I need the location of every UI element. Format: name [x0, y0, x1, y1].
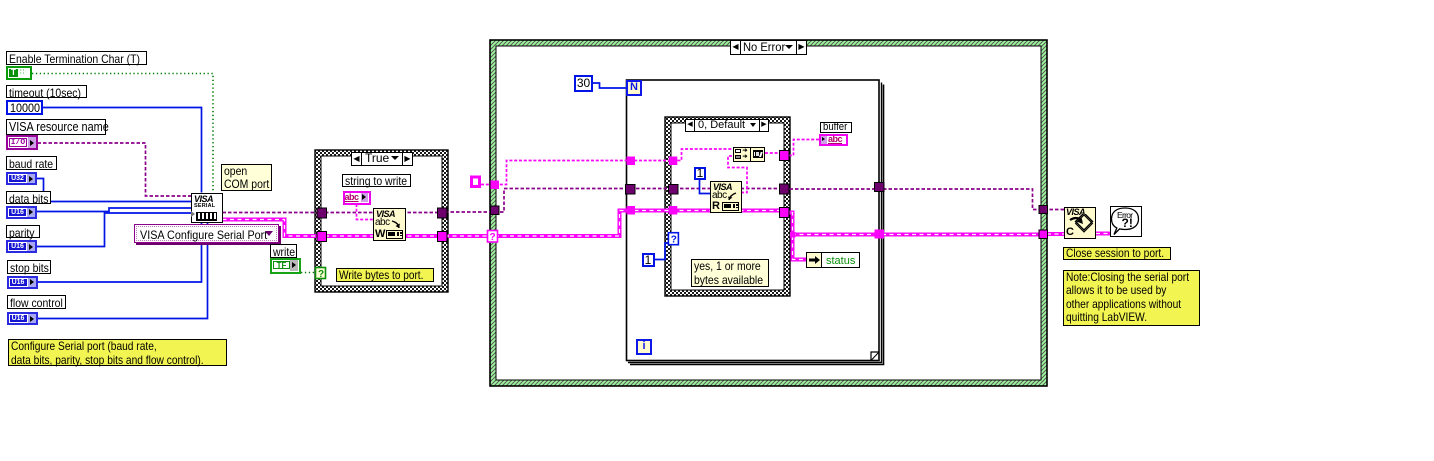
wire string hollow tunnel stub: [481, 184, 492, 186]
tunnel string NoError left: [491, 181, 500, 190]
tunnel string case right: [780, 151, 790, 161]
VISA Read icon: [710, 181, 742, 213]
label data bits: [6, 191, 51, 204]
wire purple loop to close: [784, 189, 1064, 210]
note yes 1 or more bytes available: [691, 259, 769, 287]
tunnel error True right: [438, 232, 448, 242]
tunnel purple True left: [317, 208, 327, 218]
tunnel error case right: [780, 208, 790, 218]
wire error close to handler: [1096, 232, 1110, 236]
tunnel purple loop left: [626, 185, 636, 195]
Simple Error Handler icon: [1110, 206, 1142, 237]
wire purple through True case: [325, 212, 439, 214]
junction error: [790, 232, 796, 238]
boolean constant T: [6, 66, 32, 80]
tunnel error loop left: [627, 206, 636, 215]
numeric constant 30: [574, 75, 593, 92]
numeric constant 1 inner: [694, 167, 706, 180]
wire boolean termination char: [32, 74, 213, 193]
wire stop bits blue: [37, 222, 202, 282]
tunnel selector NoError: [488, 231, 498, 244]
0,Default case title: [685, 119, 769, 132]
VISA Close icon: [1064, 207, 1096, 239]
tunnel error case left: [669, 206, 678, 215]
case structure No Error border: [490, 40, 1047, 386]
numeric constant 10000: [6, 100, 43, 115]
numeric control U16 stop bits: [7, 276, 38, 289]
label parity: [6, 225, 40, 238]
boolean constant write TF: [270, 258, 301, 274]
N terminal: [626, 80, 642, 96]
svg-text:?: ?: [671, 235, 677, 246]
string indicator abc buffer: [819, 134, 848, 146]
tunnel selector True: [316, 268, 326, 281]
tunnel string loop left: [627, 157, 636, 166]
wire boolean write: [301, 272, 317, 274]
wire string to buffer: [784, 140, 820, 156]
wire error inside NoError to read: [495, 211, 784, 237]
wire error read-out to right: [784, 213, 1047, 235]
wire string concat out: [765, 152, 780, 154]
tunnel purple loop right: [875, 183, 885, 192]
True case title: [351, 152, 413, 166]
wire baud rate blue: [37, 179, 192, 202]
wire string inside NoError to concat: [495, 149, 734, 185]
tunnel error loop right: [875, 230, 885, 239]
case structure True border: [315, 150, 448, 292]
tunnel purple NoError right: [1039, 206, 1048, 214]
wire error branch to status: [793, 236, 808, 260]
status indicator: [806, 252, 860, 268]
numeric control U32: [6, 172, 37, 185]
wire error through True case: [325, 234, 439, 238]
wire timeout blue: [43, 108, 202, 193]
wire string to write pink: [357, 204, 375, 220]
wire purple True-to-NoError and inside to loop: [445, 189, 783, 213]
note Write bytes to port: [336, 268, 434, 282]
wire blue 30 to N: [593, 83, 627, 88]
label buffer: [820, 122, 852, 133]
numeric constant 1 selector: [642, 253, 655, 267]
numeric control U16 data bits: [6, 206, 37, 219]
label write: [270, 244, 297, 258]
numeric control U16 flow control: [7, 312, 38, 325]
node free tunnel square: [472, 177, 480, 187]
note Closing the serial port: [1063, 270, 1200, 326]
i terminal: [636, 339, 652, 355]
VISA resource control I/O: [6, 135, 38, 150]
label string to write: [342, 174, 411, 187]
wire parity blue: [37, 213, 192, 247]
label VISA resource name: [6, 119, 106, 135]
tunnel string case left: [669, 157, 678, 166]
concat strings node: [733, 147, 765, 163]
wire data bits blue: [37, 208, 192, 212]
wire blue 1 to read: [700, 179, 712, 194]
No Error case title: [730, 40, 807, 55]
tunnel purple True right: [438, 208, 448, 218]
tunnel selector case blue: [668, 233, 678, 246]
tunnel purple case right: [780, 184, 790, 194]
svg-text:?: ?: [490, 232, 496, 243]
wire error serial-to-write magenta: [223, 220, 326, 237]
wire error to close: [1047, 232, 1064, 236]
wire flow control blue: [37, 222, 208, 319]
wire string read to concat: [728, 156, 747, 193]
wire blue 1 to selector: [655, 243, 670, 260]
note Close session to port: [1063, 247, 1171, 260]
label stop bits: [7, 260, 51, 274]
wire VISA resource name purple: [38, 143, 192, 196]
VISA Configure Serial Port icon: [191, 193, 223, 223]
label flow control: [7, 295, 66, 309]
tunnel purple case left: [669, 185, 679, 195]
tunnel purple NoError left: [491, 206, 500, 215]
label timeout (10sec): [6, 85, 87, 98]
string constant abc: [343, 191, 372, 205]
wire VISA session serial-to-write purple: [223, 212, 326, 214]
note Configure Serial port: [8, 339, 227, 366]
label baud rate: [6, 156, 57, 170]
wire error True-to-selector: [445, 234, 492, 238]
svg-text:?: ?: [318, 269, 324, 280]
label Enable Termination Char (T): [6, 51, 147, 65]
tunnel error NoError right: [1039, 230, 1048, 239]
note open COM port: [221, 164, 272, 191]
for loop frame: [627, 80, 884, 365]
VISA Configure Serial Port label: [134, 224, 279, 243]
case structure 0,Default border: [665, 117, 790, 296]
numeric control U16 parity: [6, 240, 37, 253]
VISA Write icon: [373, 208, 406, 241]
tunnel error True left: [317, 232, 327, 242]
